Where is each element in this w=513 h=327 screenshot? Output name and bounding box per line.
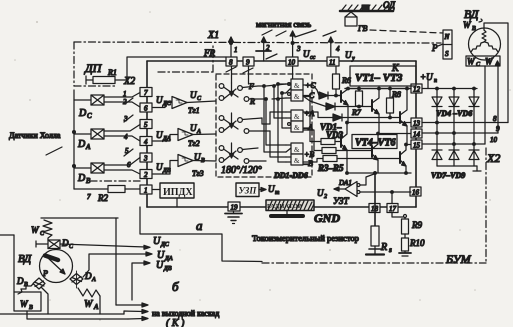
fig b: winding WA zigzag <box>78 288 100 311</box>
svg-text:14: 14 <box>413 131 421 139</box>
board outline <box>147 61 416 207</box>
fig b: rotor arrow <box>42 258 65 278</box>
wire DA to box4 <box>104 136 140 141</box>
svg-text:–B: –B <box>303 159 313 168</box>
block ИПДХ <box>153 183 194 207</box>
flyback diode VD5 <box>449 87 459 134</box>
phase line 9 internal <box>378 133 411 135</box>
svg-text:+B: +B <box>304 150 314 159</box>
resistor R3 <box>303 96 341 145</box>
sensor supply bus <box>73 90 75 189</box>
wire DA to box5 <box>104 125 140 132</box>
terminal box 7 <box>140 88 152 98</box>
terminal box 14 <box>411 129 422 139</box>
VD7-VD9 anode bus <box>437 166 481 171</box>
svg-text:1: 1 <box>144 187 148 195</box>
transistor VT1 <box>341 87 349 122</box>
terminal box 16 <box>410 187 421 197</box>
svg-text:R9: R9 <box>411 220 422 230</box>
svg-text:ГВ: ГВ <box>357 24 368 33</box>
svg-text:БУМ: БУМ <box>445 252 472 266</box>
svg-text:8: 8 <box>229 59 233 67</box>
svg-text:B: B <box>472 26 476 32</box>
svg-text:X1: X1 <box>207 30 219 41</box>
X1 pin 3 <box>290 31 301 57</box>
svg-text:D: D <box>78 108 87 119</box>
VT1-VT3 label box <box>350 66 416 86</box>
magnetic coupling dashed link <box>370 30 443 33</box>
transistor VT2 <box>372 87 380 133</box>
svg-text:U: U <box>156 162 163 172</box>
resistor R5 <box>303 156 400 163</box>
svg-text:R1: R1 <box>107 68 117 77</box>
X1 pin 4 <box>328 37 340 57</box>
svg-text:1: 1 <box>123 90 127 98</box>
hall sensor DB <box>74 163 104 173</box>
svg-text:U: U <box>190 123 197 133</box>
svg-text:б: б <box>172 279 179 294</box>
wire WA down <box>497 66 499 133</box>
svg-text:16: 16 <box>412 189 420 197</box>
gate DD1 <box>286 79 303 93</box>
svg-text:R2: R2 <box>97 193 108 203</box>
svg-text:A: A <box>85 143 91 151</box>
svg-text:U: U <box>345 50 352 60</box>
svg-text:s: s <box>389 246 392 254</box>
БУМ dash-dot boundary bottom <box>262 262 486 264</box>
wire FR from R1 to box 8 <box>127 57 226 80</box>
wire box10 to gates <box>292 66 294 79</box>
svg-text:17: 17 <box>389 205 397 213</box>
svg-text:&: & <box>294 82 300 90</box>
svg-text:U: U <box>190 90 197 100</box>
svg-text:11: 11 <box>329 59 335 67</box>
fig b: sensor DA diamond <box>70 271 96 288</box>
svg-text:VD4 –VD6: VD4 –VD6 <box>436 109 472 118</box>
wire WB around <box>484 23 508 123</box>
svg-text:R10: R10 <box>409 238 425 248</box>
fig b: top wire <box>41 217 118 219</box>
svg-text:2: 2 <box>123 98 127 106</box>
svg-text:R: R <box>249 97 255 106</box>
svg-text:ОД: ОД <box>383 0 396 10</box>
wire to box17 <box>391 191 394 204</box>
svg-text:Токоизмерительный резистор: Токоизмерительный резистор <box>252 233 359 243</box>
motor ВД label <box>464 7 482 22</box>
fig b: output arrows to stage K <box>116 303 148 321</box>
phase line 8 external <box>422 122 508 124</box>
fig b: left feed wire <box>0 234 14 236</box>
svg-text:DD1-DD6: DD1-DD6 <box>273 171 308 180</box>
svg-text:3: 3 <box>296 45 301 53</box>
svg-text:на выходной каскад: на выходной каскад <box>152 309 219 318</box>
svg-text:ИПДХ: ИПДХ <box>163 187 193 198</box>
terminal box 13 <box>411 118 422 128</box>
phase line 8 internal <box>347 122 411 124</box>
svg-text:ДС: ДС <box>162 101 172 107</box>
svg-text:РАДИАТОР: РАДИАТОР <box>267 203 302 210</box>
resistor R9 <box>392 213 422 235</box>
net +Up <box>420 72 477 89</box>
terminal box 8 <box>226 57 237 67</box>
heatsink ground <box>271 211 303 217</box>
resistor R6 <box>333 66 351 97</box>
svg-text:&: & <box>294 113 300 121</box>
fig b: winding WC zigzag <box>31 220 52 240</box>
switch group 1 <box>219 83 266 101</box>
svg-text:ДА: ДА <box>162 136 171 142</box>
gate DD3 <box>286 110 303 121</box>
resistor R7 <box>351 87 363 117</box>
terminal box 19 <box>228 202 240 212</box>
wire DB to box3 <box>104 158 140 166</box>
svg-text:п: п <box>434 78 437 84</box>
svg-text:7: 7 <box>144 89 148 97</box>
terminal box 5 <box>140 120 152 130</box>
svg-text:6: 6 <box>127 161 131 169</box>
svg-text:1: 1 <box>234 46 238 54</box>
svg-text:U: U <box>153 236 161 247</box>
svg-text:Тг1: Тг1 <box>188 106 200 115</box>
trigger Tr3 <box>153 155 216 175</box>
svg-text:4: 4 <box>336 45 340 53</box>
fig b: rotor circle <box>40 250 73 283</box>
svg-text:19: 19 <box>231 204 239 212</box>
fig b: right return wire <box>115 218 117 305</box>
svg-text:D: D <box>61 238 69 248</box>
svg-text:7: 7 <box>87 193 91 201</box>
svg-text:3: 3 <box>123 115 128 123</box>
flyback diode VD4 <box>432 87 442 124</box>
terminal box 17 <box>387 204 398 214</box>
flyback diode VD6 <box>469 87 479 145</box>
gate DD4 <box>286 121 303 132</box>
svg-text:5: 5 <box>125 147 129 155</box>
caption magnetic coupling <box>256 20 311 36</box>
svg-text:Тг2: Тг2 <box>188 139 200 148</box>
svg-text:10: 10 <box>288 59 296 67</box>
commutator internal mesh <box>262 83 286 162</box>
svg-text:ВД: ВД <box>464 7 480 21</box>
winding WB zigzag <box>482 30 486 42</box>
ground at box 19 <box>225 211 242 224</box>
svg-text:магнитная связь: магнитная связь <box>256 20 311 29</box>
diode VD9 <box>469 144 479 166</box>
svg-text:&: & <box>294 124 300 132</box>
resistor R8 <box>387 87 401 119</box>
resistor R4 <box>303 130 372 154</box>
svg-text:U: U <box>156 95 163 105</box>
op-amp DA1 УЗТ <box>334 172 411 197</box>
fig b: bottom wire 1 <box>0 313 124 315</box>
svg-text:ДА: ДА <box>164 256 173 262</box>
svg-text:S: S <box>445 50 449 58</box>
БУМ dash-dot boundary right <box>485 148 487 263</box>
transistor VT3 <box>400 87 408 144</box>
svg-text:U: U <box>268 184 275 194</box>
terminal box 4 <box>140 137 152 147</box>
svg-text:Р: Р <box>42 269 48 278</box>
svg-text:2: 2 <box>266 44 270 52</box>
svg-text:8: 8 <box>493 115 497 123</box>
fig b: sensor DB diamond <box>16 276 45 289</box>
svg-text:VD7–VD9: VD7–VD9 <box>431 171 465 180</box>
trigger Tr2 <box>153 129 216 142</box>
fig b: UDA output arrow <box>83 250 173 277</box>
transistor VT4 <box>341 121 348 173</box>
svg-text:&: & <box>294 146 300 154</box>
svg-text:B: B <box>86 177 91 185</box>
svg-text:ДС: ДС <box>160 242 170 248</box>
svg-text:A: A <box>93 303 99 311</box>
terminal box 12 <box>411 84 422 94</box>
svg-text:15: 15 <box>413 142 421 150</box>
wire DC to box6 <box>104 102 140 107</box>
svg-text:&: & <box>294 93 300 101</box>
diode VD8 <box>449 133 459 166</box>
wire DB to box2 <box>104 170 140 174</box>
slash marks <box>226 67 236 72</box>
svg-text:ДВ: ДВ <box>163 266 172 272</box>
svg-text:3: 3 <box>143 155 148 163</box>
X1 pin 2 <box>256 37 271 61</box>
svg-text:10: 10 <box>490 136 498 144</box>
svg-text:B: B <box>29 305 33 311</box>
X1 pin 1 <box>229 37 238 57</box>
fig b: UDB output arrow <box>132 260 172 300</box>
terminal box 2 <box>140 170 152 180</box>
fig b: bottom wire 2 <box>27 311 128 319</box>
svg-text:т: т <box>275 190 280 196</box>
trigger Tr1 <box>153 97 216 109</box>
svg-text:Датчики Холла: Датчики Холла <box>9 131 61 140</box>
svg-text:X2: X2 <box>486 151 500 165</box>
svg-text:y: y <box>351 56 355 62</box>
motor terminal bracket <box>466 56 500 66</box>
fig b: winding WB zigzag <box>18 284 33 294</box>
fig b: DB leg <box>41 287 48 314</box>
fig b: rotor magnet <box>45 256 58 261</box>
svg-text:X2: X2 <box>123 76 135 87</box>
switch group 2 <box>219 113 270 133</box>
emitter bus <box>346 172 411 175</box>
fig b: WB box <box>14 235 41 311</box>
svg-text:13: 13 <box>413 120 421 128</box>
phase line 10 internal <box>406 144 411 146</box>
fig b: UDC output arrow <box>60 236 170 249</box>
svg-text:Тг3: Тг3 <box>192 169 204 178</box>
resistor R1 <box>86 68 127 84</box>
svg-text:D: D <box>77 139 86 150</box>
terminal box 18 <box>369 204 380 214</box>
svg-text:D: D <box>16 276 24 286</box>
switch group 3 <box>219 143 266 163</box>
svg-text:A: A <box>196 129 201 135</box>
terminal box 10 <box>286 57 298 67</box>
svg-text:cc: cc <box>310 55 316 61</box>
label P <box>431 43 443 53</box>
wire WC down <box>484 66 486 144</box>
svg-text:ДВ: ДВ <box>162 168 171 174</box>
svg-text:&: & <box>294 157 300 165</box>
tacho ГВ <box>345 11 357 26</box>
svg-text:A: A <box>91 277 96 283</box>
svg-text:DA1: DA1 <box>338 179 352 187</box>
svg-text:9: 9 <box>246 59 250 67</box>
svg-text:УЗТ: УЗТ <box>333 196 350 206</box>
svg-text:U: U <box>156 260 164 271</box>
hall sensor DA <box>74 129 104 139</box>
phase line 10 external <box>422 143 485 145</box>
svg-text:180°/120°: 180°/120° <box>221 165 262 176</box>
svg-text:C: C <box>87 112 92 120</box>
svg-text:GND: GND <box>314 211 340 225</box>
svg-text:N: N <box>444 33 450 41</box>
wire DC to box7 <box>104 93 140 98</box>
svg-text:B: B <box>201 158 205 164</box>
svg-text:+A: +A <box>304 109 314 118</box>
svg-text:а: а <box>196 218 203 233</box>
terminal box 15 <box>411 140 422 150</box>
svg-text:R: R <box>380 242 387 253</box>
svg-text:U: U <box>303 49 310 59</box>
svg-text:D: D <box>84 271 92 281</box>
svg-text:4: 4 <box>124 133 128 141</box>
svg-text:ВД: ВД <box>18 253 32 265</box>
svg-text:R3–R5: R3–R5 <box>317 163 344 173</box>
hall sensor DC <box>74 95 104 105</box>
svg-text:12: 12 <box>413 86 421 94</box>
VT4-VT6 label box <box>352 135 397 149</box>
block УЗП <box>236 183 266 197</box>
svg-text:U: U <box>156 130 163 140</box>
svg-text:U: U <box>317 188 324 198</box>
gate DD2 <box>286 90 303 101</box>
radiator heatsink <box>266 200 314 211</box>
terminal box 1 <box>140 185 152 195</box>
winding WA zigzag <box>485 42 498 52</box>
terminal box 11 <box>327 57 339 67</box>
ДП block dash-dot boundary <box>74 42 441 181</box>
bottom return wire <box>140 207 262 262</box>
diode VD7 <box>432 123 442 167</box>
collector bus <box>345 88 411 90</box>
resistor R2 <box>74 186 140 204</box>
svg-text:6: 6 <box>144 105 148 113</box>
svg-text:R8: R8 <box>391 90 401 99</box>
svg-text:5: 5 <box>144 121 148 129</box>
motor stator circle <box>469 28 501 60</box>
diode VD3 <box>303 112 400 121</box>
svg-text:+U: +U <box>420 72 433 82</box>
caption arrow <box>46 147 62 155</box>
terminal box 9 <box>243 57 254 67</box>
gate DD5 <box>286 143 303 154</box>
svg-text:R7: R7 <box>351 108 362 117</box>
diode VD1 <box>303 85 341 99</box>
rotor magnet box P <box>443 30 452 59</box>
svg-text:Р: Р <box>431 43 438 53</box>
commutator dashed box <box>216 74 312 177</box>
fig b: WA leg <box>99 296 101 314</box>
drive shaft ОД <box>340 5 393 11</box>
svg-text:4: 4 <box>144 138 148 146</box>
diode VD2 <box>303 96 372 110</box>
svg-text:( К ): ( К ) <box>166 318 185 327</box>
svg-text:D: D <box>77 173 86 184</box>
svg-text:U: U <box>194 152 201 162</box>
transistor VT5 <box>372 132 379 173</box>
fig b: sensor DC <box>36 238 74 250</box>
svg-text:2: 2 <box>324 194 327 200</box>
slash marks on sensor wires <box>124 115 133 122</box>
svg-text:ДП: ДП <box>84 61 103 75</box>
slash marks near pins <box>295 30 316 37</box>
wire box8 down <box>231 66 233 83</box>
terminal box 6 <box>140 103 152 113</box>
svg-text:2: 2 <box>144 171 148 179</box>
winding WC zigzag <box>471 42 484 52</box>
phase line 9 external <box>422 132 498 134</box>
resistor R10 <box>399 234 425 256</box>
shunt Rs <box>366 173 384 255</box>
wire box9 down <box>248 66 250 84</box>
svg-text:УЗП: УЗП <box>239 186 258 196</box>
svg-text:–A: –A <box>303 123 313 132</box>
terminal box 3 <box>140 153 152 163</box>
transistor VT6 <box>400 143 407 173</box>
gate DD6 <box>286 154 303 165</box>
